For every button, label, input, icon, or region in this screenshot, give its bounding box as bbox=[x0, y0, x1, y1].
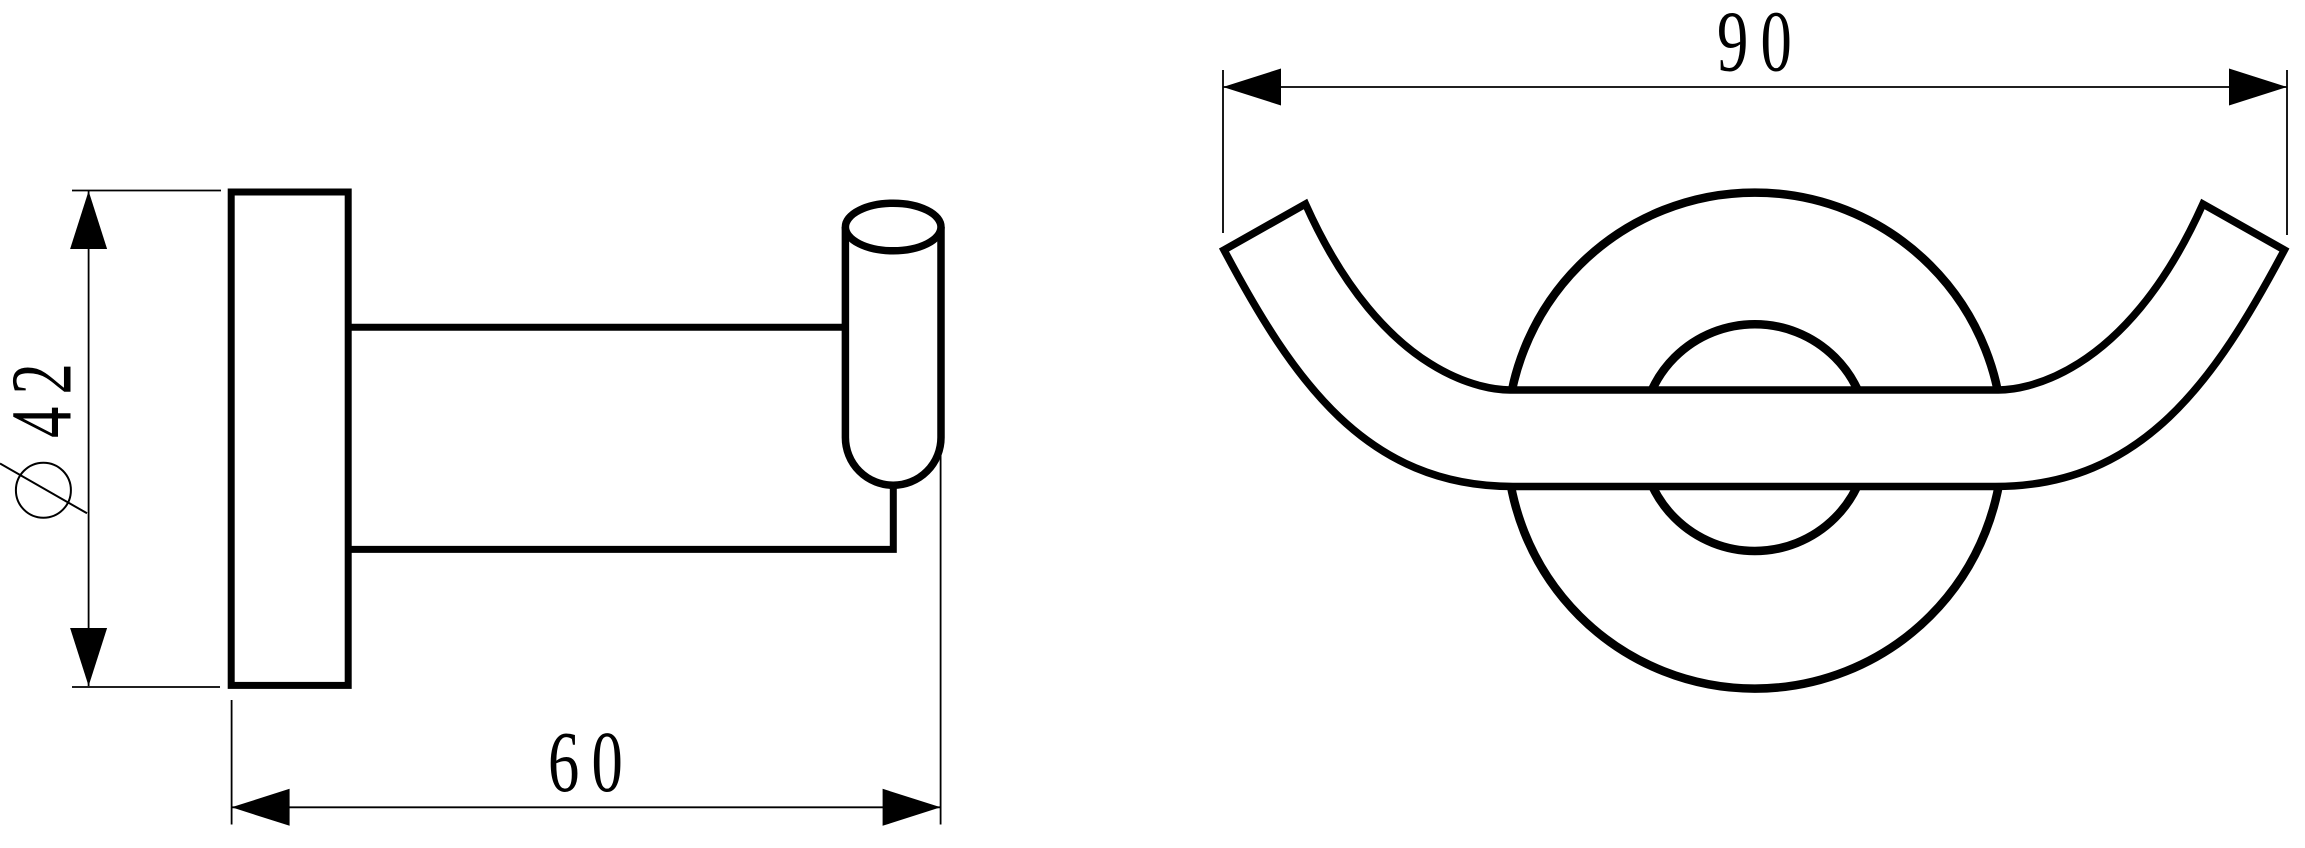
dim 90: left extension line bbox=[1222, 70, 1224, 233]
dim 90: dimension line bbox=[1223, 86, 2287, 88]
arm bottom line bbox=[348, 483, 893, 549]
hook post top ellipse bbox=[845, 203, 941, 251]
dim 42: diameter symbol circle bbox=[16, 463, 71, 518]
wall plate outer circle bbox=[1507, 193, 2003, 689]
dim 42: bottom extension line bbox=[72, 686, 220, 688]
svg-text:90: 90 bbox=[1717, 0, 1804, 90]
dim 60: right extension line bbox=[940, 455, 942, 825]
dim 42: diameter symbol slash bbox=[0, 464, 87, 514]
wall plate (side) bbox=[231, 192, 348, 685]
hook post cylinder body bbox=[845, 227, 941, 485]
dim 60: left extension line bbox=[231, 700, 233, 825]
dim 90: right extension line bbox=[2286, 70, 2288, 235]
arm top line bbox=[348, 324, 880, 331]
svg-text:42: 42 bbox=[0, 351, 90, 438]
dim 60: dimension line bbox=[232, 806, 940, 808]
dim 60: left arrow bbox=[232, 789, 290, 826]
dim 42: bottom arrow bbox=[70, 628, 107, 686]
dim 60: right arrow bbox=[883, 789, 941, 826]
dim 42: dimension line bbox=[88, 191, 90, 686]
mount hub inner circle bbox=[1641, 324, 1868, 551]
dim 90: left arrow bbox=[1223, 69, 1281, 106]
dim 42: top arrow bbox=[70, 191, 107, 249]
dim 90: right arrow bbox=[2229, 69, 2287, 106]
double hook band (front) bbox=[1224, 204, 2284, 487]
dim 42: top extension line bbox=[72, 190, 221, 192]
svg-text:60: 60 bbox=[548, 714, 635, 810]
